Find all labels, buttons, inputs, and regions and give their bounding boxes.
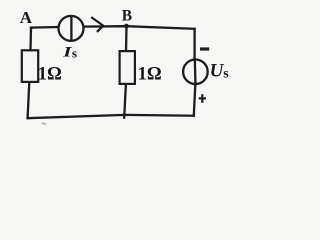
current source Is circle: [59, 16, 84, 41]
wire left rail lower: [28, 82, 30, 118]
wire top-left: A corner to current source: [31, 27, 59, 29]
wire B to middle resistor: [125, 26, 128, 51]
resistor R1 (left 1 ohm): [22, 50, 38, 82]
node B dot: [124, 24, 129, 29]
wire top: current source to B to right corner: [84, 26, 195, 29]
wire middle resistor to bottom: [124, 84, 126, 118]
voltage source axis line through circle: [194, 59, 197, 85]
svg-text:A: A: [20, 8, 33, 27]
svg-text:s: s: [223, 67, 229, 82]
svg-text:s: s: [72, 46, 77, 61]
wire right rail upper: [193, 29, 195, 59]
resistor R2 (middle 1 ohm): [120, 51, 135, 84]
current source Is internal bar: [70, 16, 72, 41]
wire left rail upper: [29, 28, 32, 51]
value label Is: [62, 44, 72, 60]
polarity plus sign of Us: [199, 94, 206, 103]
small scan speck below bottom wire: [42, 122, 46, 125]
wire bottom: [28, 115, 194, 118]
wire right rail lower: [194, 85, 196, 116]
svg-text:1Ω: 1Ω: [38, 65, 62, 85]
voltage source Us circle: [183, 60, 208, 85]
current direction arrow: [91, 17, 103, 32]
svg-text:1Ω: 1Ω: [138, 64, 162, 84]
svg-text:B: B: [122, 8, 132, 25]
polarity minus sign of Us: [200, 47, 209, 50]
